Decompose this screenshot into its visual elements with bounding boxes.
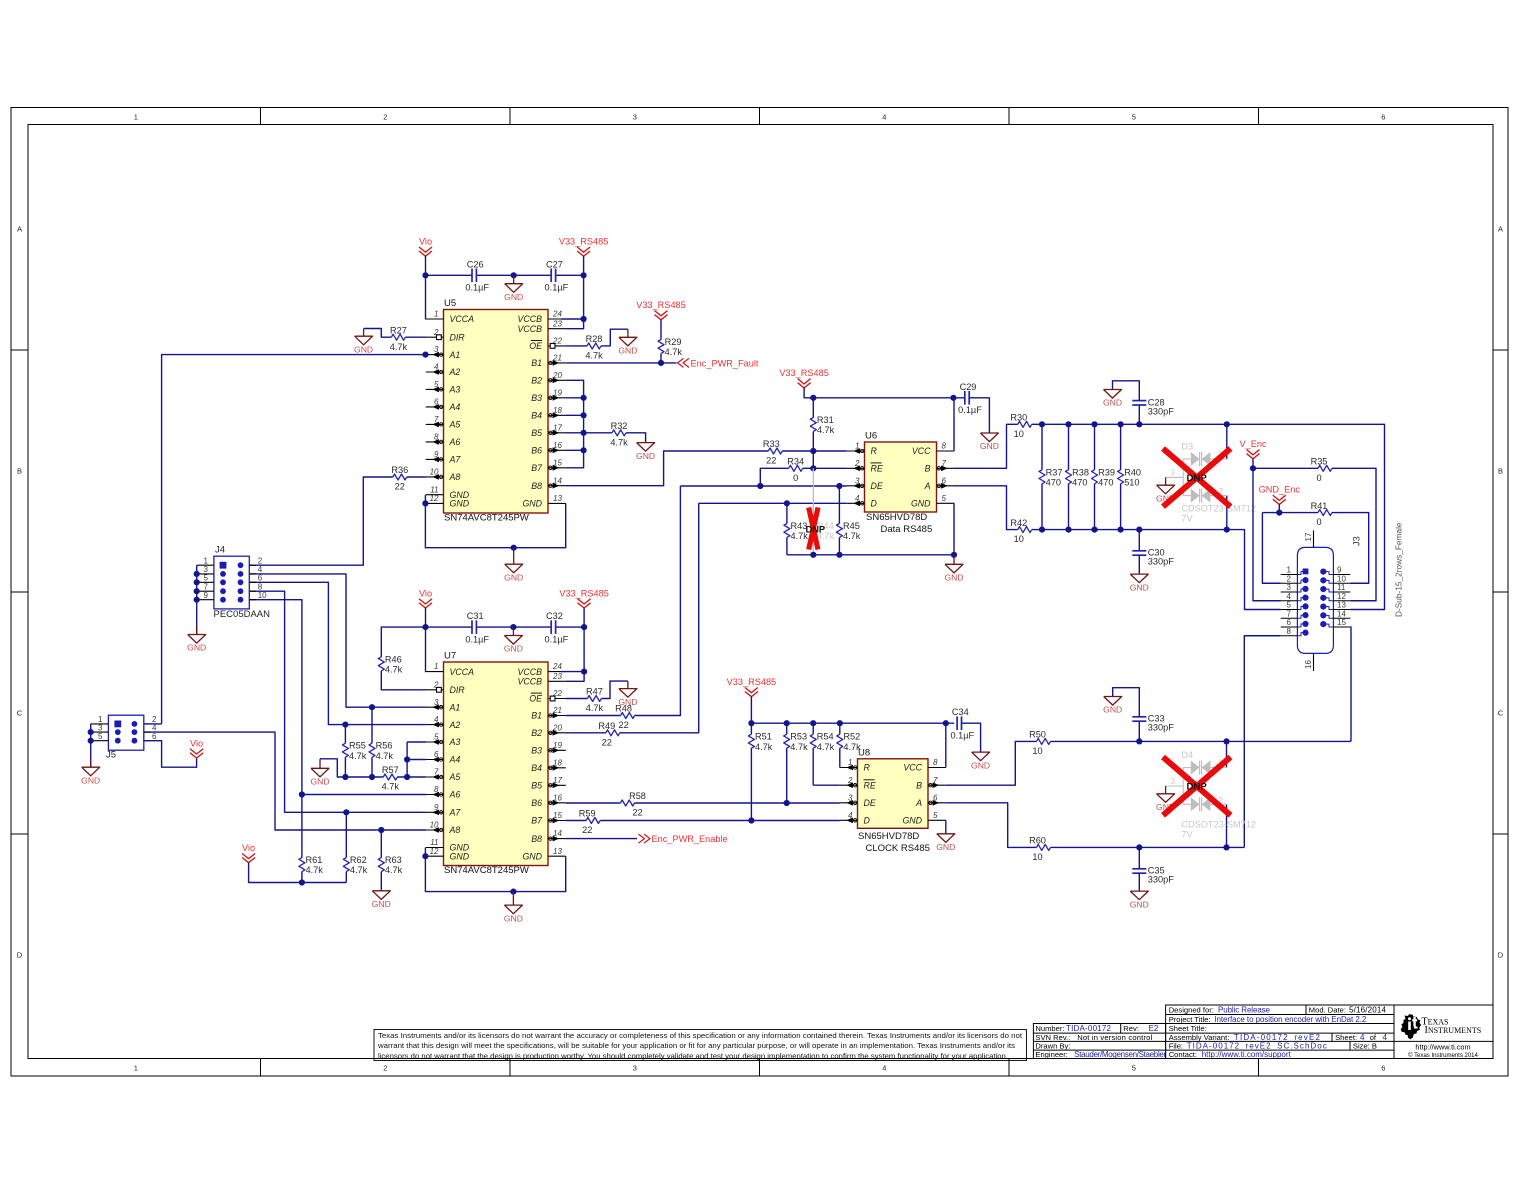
- J4 pin 1: [197, 564, 214, 566]
- svg-text:OE: OE: [529, 694, 542, 704]
- J4 pin 8: [249, 590, 256, 592]
- J3 pin 17: [1313, 530, 1315, 547]
- svg-text:GND: GND: [971, 760, 990, 770]
- U7 pin 2 DIR: [426, 689, 444, 691]
- wire U6 A to R42: [954, 486, 1018, 530]
- svg-text:6: 6: [152, 732, 157, 741]
- svg-text:VCCA: VCCA: [450, 667, 475, 677]
- resistor R33: [768, 448, 782, 454]
- resistor R32: [612, 430, 626, 436]
- svg-text:22: 22: [395, 482, 405, 492]
- svg-text:4.7k: 4.7k: [790, 742, 808, 752]
- svg-text:GND: GND: [980, 441, 999, 451]
- svg-text:A: A: [1498, 225, 1503, 234]
- svg-text:R: R: [871, 446, 878, 456]
- svg-text:B3: B3: [531, 393, 542, 403]
- wire C28 to rail: [1138, 405, 1140, 425]
- U7 pin 13 GND: [548, 855, 566, 857]
- U7 pin 1 VCCA: [426, 671, 444, 673]
- ground: [945, 833, 947, 835]
- resistor R36: [393, 474, 407, 480]
- wire DE net down to U7 B1 via R48: [635, 486, 681, 716]
- svg-text:VCCB: VCCB: [518, 314, 543, 324]
- wire clock B rail: [1051, 740, 1352, 742]
- U7 pin 23 VCCB: [548, 680, 566, 682]
- svg-text:11: 11: [430, 838, 438, 847]
- ground: [513, 548, 515, 565]
- wire J4.8 to U7 A7: [249, 591, 426, 812]
- svg-text:R54: R54: [817, 732, 834, 742]
- wire GND_Enc branch to J3 pin2: [1262, 512, 1279, 514]
- svg-text:B4: B4: [531, 763, 542, 773]
- svg-text:4.7k: 4.7k: [350, 865, 368, 875]
- svg-text:R50: R50: [1029, 730, 1046, 740]
- J3 pin 16: [1313, 653, 1315, 671]
- svg-text:A5: A5: [449, 772, 461, 782]
- wire V33 elbow to rail: [804, 388, 813, 398]
- svg-text:GND: GND: [1103, 705, 1122, 715]
- svg-text:13: 13: [553, 494, 562, 503]
- svg-text:A2: A2: [449, 720, 461, 730]
- U5 pin 20 B2: [548, 379, 566, 381]
- ground: [90, 759, 92, 767]
- U5 pin 17 B5: [548, 432, 566, 434]
- J4 pin 10: [249, 599, 256, 601]
- svg-text:A4: A4: [449, 755, 461, 765]
- J3 pin 5: [1281, 609, 1298, 611]
- U5 pin 8 A6: [426, 441, 444, 443]
- svg-text:3: 3: [633, 113, 637, 122]
- wire B2-B7 bus: [566, 380, 584, 468]
- wire data A rail: [1032, 530, 1281, 610]
- svg-text:Contact:: Contact:: [1169, 1050, 1197, 1059]
- J3 pin 10: [1333, 582, 1350, 584]
- svg-text:4.7k: 4.7k: [817, 425, 835, 435]
- ground: [980, 751, 982, 753]
- svg-text:R51: R51: [755, 732, 772, 742]
- svg-text:6: 6: [1381, 113, 1385, 122]
- wire RE via R34 to DE net: [803, 467, 847, 469]
- resistor R58: [621, 800, 635, 806]
- svg-text:R: R: [864, 763, 871, 773]
- power V33_RS485: [745, 688, 758, 693]
- connector J5 body: [108, 715, 143, 750]
- power Vio: [242, 854, 255, 859]
- svg-text:8: 8: [942, 442, 947, 451]
- svg-text:DIR: DIR: [450, 685, 466, 695]
- J3 pin 6: [1281, 626, 1298, 628]
- svg-text:1: 1: [204, 556, 209, 565]
- svg-text:B: B: [925, 464, 931, 474]
- svg-text:SN74AVC8T245PW: SN74AVC8T245PW: [444, 865, 529, 876]
- svg-text:GND: GND: [504, 644, 523, 654]
- svg-text:A4: A4: [449, 402, 461, 412]
- J5 pin 6: [144, 740, 151, 742]
- ground: [1165, 477, 1167, 485]
- U7 pin 16 B6: [548, 802, 566, 804]
- wire R47 to gnd elbow: [601, 681, 628, 698]
- U5 pin 6 A4: [426, 406, 444, 408]
- svg-text:GND: GND: [911, 499, 931, 509]
- resistor R35: [1318, 465, 1332, 471]
- svg-text:B4: B4: [531, 411, 542, 421]
- svg-text:10: 10: [1014, 429, 1024, 439]
- wire data B rail: [1032, 424, 1385, 609]
- svg-text:B7: B7: [531, 816, 543, 826]
- svg-text:5: 5: [204, 574, 209, 583]
- svg-text:6: 6: [258, 574, 263, 583]
- svg-text:D4: D4: [1181, 750, 1193, 760]
- svg-text:DNP: DNP: [806, 525, 826, 535]
- wire C34 to gnd elbow: [962, 723, 981, 752]
- DNP cross R44: [809, 508, 818, 550]
- U7 pin 4 A2: [426, 724, 444, 726]
- diode D4 CDSOT23-SM712 (DNP): [1182, 768, 1184, 805]
- wire R33 to U6 pin1: [782, 450, 846, 452]
- svg-text:VCCB: VCCB: [518, 667, 543, 677]
- wire C35 to gnd: [1138, 873, 1140, 891]
- wire V_Enc via R35 to J3 pin12: [1253, 467, 1318, 469]
- svg-text:B2: B2: [531, 376, 542, 386]
- wire clock A rail: [1051, 846, 1245, 848]
- svg-text:5: 5: [942, 494, 947, 503]
- wire D3 pin2 to data A rail: [1226, 496, 1228, 530]
- svg-text:C34: C34: [952, 707, 969, 717]
- wire gnd elbow to R27: [364, 329, 392, 338]
- power V33_RS485: [577, 247, 590, 252]
- svg-text:DE: DE: [864, 798, 876, 808]
- capacitor C27: [550, 269, 552, 283]
- svg-text:GND: GND: [504, 572, 523, 582]
- svg-text:4.7k: 4.7k: [376, 751, 394, 761]
- IC U8 SN65HVD78D body: [858, 759, 929, 829]
- U5 pin 19 B3: [548, 397, 566, 399]
- svg-text:4.7k: 4.7k: [385, 865, 403, 875]
- svg-text:Vio: Vio: [242, 843, 255, 853]
- svg-text:GND: GND: [310, 777, 329, 787]
- U7 pin 6 A4: [426, 759, 444, 761]
- wire U6 vcc pin up: [953, 398, 955, 451]
- svg-text:VCC: VCC: [903, 763, 922, 773]
- svg-text:A8: A8: [449, 472, 461, 482]
- J3 pin 8: [1281, 635, 1298, 637]
- wire A8 via R36 to J4 pin2: [407, 476, 426, 478]
- ground: [1165, 786, 1167, 794]
- wire U8 VCC up to rail: [945, 723, 947, 767]
- ground: [627, 329, 629, 337]
- svg-text:0.1µF: 0.1µF: [545, 635, 569, 645]
- svg-text:4: 4: [882, 1064, 886, 1073]
- J3 pin 9: [1333, 574, 1350, 576]
- U5 pin 3 A1: [426, 354, 444, 356]
- wire Vio to VCCA: [425, 256, 427, 319]
- svg-text:V33_RS485: V33_RS485: [559, 588, 609, 598]
- svg-text:DNP: DNP: [1187, 473, 1208, 484]
- J5 pin 1: [91, 723, 109, 725]
- svg-text:© Texas Instruments 2014: © Texas Instruments 2014: [1408, 1052, 1478, 1059]
- wire J5.4 to U7 A8: [144, 732, 426, 830]
- J3 pin 15: [1333, 626, 1350, 628]
- svg-text:J5: J5: [106, 750, 116, 761]
- wire R27 to DIR: [405, 336, 426, 338]
- wire J4.10 to U7 A6: [249, 600, 426, 795]
- svg-text:Vio: Vio: [419, 237, 432, 247]
- svg-text:10: 10: [1032, 746, 1042, 756]
- diode D3 CDSOT23-SM712 (DNP): [1182, 459, 1184, 496]
- svg-text:3: 3: [633, 1064, 637, 1073]
- svg-text:R42: R42: [1010, 518, 1027, 528]
- svg-text:VCC: VCC: [912, 446, 931, 456]
- svg-text:24: 24: [552, 662, 562, 671]
- svg-text:4.7k: 4.7k: [385, 665, 403, 675]
- svg-text:R31: R31: [817, 415, 834, 425]
- svg-text:1: 1: [134, 1064, 138, 1073]
- svg-text:17: 17: [1304, 532, 1313, 541]
- svg-text:12: 12: [430, 494, 439, 503]
- U5 pin 9 A7: [426, 458, 444, 460]
- U8 pin 7 B: [928, 784, 946, 786]
- svg-text:C26: C26: [467, 259, 484, 269]
- wire b pin: [566, 432, 584, 434]
- svg-text:A6: A6: [449, 437, 461, 447]
- svg-text:D: D: [1498, 951, 1504, 960]
- wire B1 to Enc_PWR_Fault: [566, 362, 677, 364]
- J3 pin 2: [1281, 582, 1298, 584]
- svg-text:R39: R39: [1098, 467, 1115, 477]
- resistor R44 (DNP): [812, 468, 814, 523]
- svg-text:R32: R32: [611, 421, 628, 431]
- resistor R42: [1018, 527, 1032, 533]
- svg-text:7V: 7V: [1181, 513, 1193, 523]
- svg-text:GND: GND: [618, 346, 637, 356]
- ground: [1138, 573, 1140, 575]
- svg-text:0: 0: [1316, 517, 1321, 527]
- sheet border frame: [11, 108, 1508, 1077]
- svg-text:8: 8: [933, 758, 938, 767]
- svg-text:11: 11: [430, 485, 438, 494]
- ground: [380, 890, 382, 892]
- wire B8 up to R33 row: [566, 451, 769, 486]
- svg-text:R59: R59: [579, 809, 596, 819]
- IC U5 SN74AVC8T245PW body: [444, 310, 549, 514]
- svg-text:R34: R34: [787, 457, 804, 467]
- J3 pin 11: [1333, 591, 1350, 593]
- svg-text:13: 13: [1337, 601, 1346, 610]
- svg-text:Mod. Date:: Mod. Date:: [1309, 1005, 1346, 1014]
- svg-text:R57: R57: [382, 765, 399, 775]
- svg-text:8: 8: [1287, 627, 1292, 636]
- ground: [953, 555, 955, 565]
- svg-text:4.7k: 4.7k: [755, 742, 773, 752]
- svg-text:R52: R52: [843, 732, 860, 742]
- wire U6 gnd pin to rail: [953, 503, 955, 555]
- svg-text:9: 9: [1337, 566, 1342, 575]
- capacitor C29: [964, 391, 966, 405]
- svg-text:R62: R62: [350, 855, 367, 865]
- U5 pin 22 OE: [548, 345, 566, 347]
- U7 pin 7 A5: [426, 776, 444, 778]
- U5 pin 7 A5: [426, 423, 444, 425]
- svg-text:VCCB: VCCB: [518, 324, 543, 334]
- svg-text:RE: RE: [864, 780, 876, 790]
- wire C30 below rail: [1138, 530, 1140, 552]
- svg-text:R36: R36: [391, 465, 408, 475]
- svg-text:Enc_PWR_Enable: Enc_PWR_Enable: [652, 834, 728, 844]
- U5 pin 23 VCCB: [548, 328, 566, 330]
- svg-text:7: 7: [1287, 609, 1292, 618]
- svg-text:A7: A7: [449, 455, 462, 465]
- wire J4.4 to U7 A1: [249, 574, 426, 707]
- U8 pin 5 GND: [928, 819, 946, 821]
- U6 pin 4 D: [847, 502, 865, 504]
- svg-text:4: 4: [882, 113, 886, 122]
- resistor R62 vertical: [345, 812, 347, 857]
- resistor R54 vertical: [812, 723, 814, 734]
- svg-text:OE: OE: [529, 341, 542, 351]
- svg-text:A: A: [924, 481, 931, 491]
- svg-text:DE: DE: [871, 481, 883, 491]
- power Vio: [419, 247, 432, 252]
- ground: [319, 759, 321, 769]
- svg-text:1: 1: [1287, 566, 1292, 575]
- svg-text:Engineer:: Engineer:: [1035, 1050, 1068, 1059]
- wire A3 A4 A5 cluster: [407, 741, 426, 743]
- svg-text:Public Release: Public Release: [1218, 1005, 1271, 1014]
- resistor R43 vertical: [786, 503, 788, 523]
- svg-text:GND: GND: [944, 573, 963, 583]
- U6 pin 8 VCC: [937, 450, 955, 452]
- U5 pin 10 A8: [426, 476, 444, 478]
- svg-text:A2: A2: [449, 367, 461, 377]
- port Enc_PWR_Fault: [678, 358, 684, 367]
- svg-text:U7: U7: [444, 651, 456, 662]
- wire U6 B to R30: [954, 424, 1018, 468]
- svg-text:15: 15: [1337, 618, 1346, 627]
- svg-text:SN65HVD78D: SN65HVD78D: [858, 831, 919, 842]
- J3 pin 7: [1281, 617, 1298, 619]
- svg-text:D-Sub-15_2rows_Female: D-Sub-15_2rows_Female: [1394, 522, 1404, 617]
- svg-text:D: D: [864, 816, 871, 826]
- svg-text:R40: R40: [1124, 467, 1141, 477]
- svg-text:5/16/2014: 5/16/2014: [1349, 1005, 1387, 1014]
- svg-text:330pF: 330pF: [1148, 406, 1174, 416]
- svg-text:INSTRUMENTS: INSTRUMENTS: [1425, 1025, 1482, 1036]
- J4 pin 2: [249, 564, 256, 566]
- J4 pin 9: [197, 599, 214, 601]
- svg-text:Enc_PWR_Fault: Enc_PWR_Fault: [691, 358, 759, 368]
- svg-text:B8: B8: [531, 834, 542, 844]
- svg-text:24: 24: [552, 310, 562, 319]
- svg-text:A1: A1: [449, 702, 461, 712]
- title block: [1166, 1005, 1493, 1059]
- wire D3 pin1 to data B rail: [1226, 424, 1228, 459]
- svg-text:CDSOT23-SM712: CDSOT23-SM712: [1181, 504, 1256, 514]
- svg-text:2: 2: [258, 556, 263, 565]
- U7 pin 22 OE: [548, 698, 566, 700]
- wire R31 bottom rail link: [812, 451, 814, 468]
- svg-text:V33_RS485: V33_RS485: [779, 368, 829, 378]
- svg-text:D: D: [871, 499, 878, 509]
- svg-text:A1: A1: [449, 350, 461, 360]
- U5 pin 4 A2: [426, 371, 444, 373]
- wire J5 odd pins to gnd: [90, 724, 92, 767]
- power Vio: [419, 599, 432, 604]
- svg-text:A6: A6: [449, 790, 461, 800]
- wire U7 B7 via R59 to clock D: [566, 820, 587, 822]
- U5 pin 16 B6: [548, 449, 566, 451]
- svg-text:GND: GND: [522, 499, 542, 509]
- ground: [1138, 890, 1140, 892]
- wire U7 gnd bottom: [425, 848, 565, 892]
- J3 pin 12: [1333, 600, 1350, 602]
- svg-text:GND: GND: [1103, 398, 1122, 408]
- svg-text:J3: J3: [1352, 536, 1362, 546]
- U8 pin 4 D: [840, 819, 858, 821]
- svg-text:4.7k: 4.7k: [382, 782, 400, 792]
- svg-text:R60: R60: [1029, 836, 1046, 846]
- J5 pin 4: [144, 731, 151, 733]
- J5 pin 5: [91, 740, 109, 742]
- ground: [1112, 388, 1114, 390]
- svg-text:6: 6: [1381, 1064, 1385, 1073]
- wire C29 to gnd: [969, 398, 989, 433]
- svg-text:12: 12: [1337, 592, 1346, 601]
- svg-text:10: 10: [1337, 574, 1346, 583]
- svg-text:R45: R45: [843, 521, 860, 531]
- wire vcc rail U7: [426, 626, 472, 628]
- wire b pin: [566, 397, 584, 399]
- U5 pin 1 VCCA: [426, 318, 444, 320]
- svg-text:CLOCK RS485: CLOCK RS485: [866, 843, 930, 854]
- svg-text:470: 470: [1072, 477, 1087, 487]
- svg-text:B: B: [1498, 467, 1503, 476]
- resistor R56 vertical: [371, 707, 373, 743]
- svg-text:GND: GND: [636, 451, 655, 461]
- svg-text:5: 5: [933, 811, 938, 820]
- svg-text:14: 14: [1337, 609, 1346, 618]
- U7 pin 11 GND: [426, 847, 444, 849]
- svg-text:Vio: Vio: [190, 738, 203, 748]
- U5 pin 5 A3: [426, 388, 444, 390]
- connector J3 D-Sub-15_2rows_Female body: [1297, 547, 1333, 653]
- wire R54 to U8 RE: [813, 784, 840, 786]
- svg-text:V_Enc: V_Enc: [1239, 439, 1266, 449]
- wire U7 VCCB24: [561, 671, 584, 673]
- ground: [645, 442, 647, 444]
- svg-text:GND: GND: [450, 499, 470, 509]
- U5 pin 18 B4: [548, 414, 566, 416]
- svg-text:B7: B7: [531, 463, 543, 473]
- U6 pin 5 GND: [937, 502, 955, 504]
- svg-text:4: 4: [1287, 592, 1292, 601]
- J4 pin 4: [249, 573, 256, 575]
- svg-text:22: 22: [632, 808, 642, 818]
- svg-text:B1: B1: [531, 358, 542, 368]
- svg-text:licensors do not warrant that: licensors do not warrant that the design…: [378, 1052, 1008, 1060]
- svg-text:6: 6: [1287, 618, 1292, 627]
- power Vio: [190, 749, 203, 754]
- svg-text:16: 16: [1304, 660, 1313, 669]
- capacitor C35: [1132, 868, 1146, 870]
- svg-text:13: 13: [553, 847, 562, 856]
- svg-text:RE: RE: [871, 464, 883, 474]
- svg-text:Size: B: Size: B: [1353, 1041, 1377, 1050]
- ground: [988, 432, 990, 434]
- U5 pin 15 B7: [548, 467, 566, 469]
- svg-text:5: 5: [1287, 601, 1292, 610]
- svg-text:PEC05DAAN: PEC05DAAN: [214, 609, 271, 620]
- svg-text:GND: GND: [522, 851, 542, 861]
